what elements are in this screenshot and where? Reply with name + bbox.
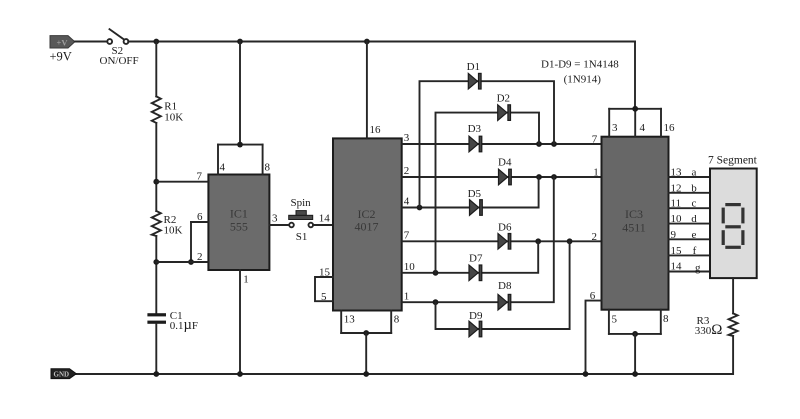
wire IC3 pin12 to b [669, 192, 711, 194]
wire row Q1 (pin2) to IC3 pin1 [402, 176, 602, 178]
display 7-segment [710, 169, 757, 279]
wire IC3 pin10 to d [669, 223, 711, 225]
svg-text:555: 555 [230, 220, 248, 234]
svg-text:5: 5 [321, 291, 327, 303]
svg-text:7 Segment: 7 Segment [708, 155, 758, 167]
svg-text:D3: D3 [468, 123, 482, 135]
svg-text:10: 10 [404, 261, 416, 273]
node IC3 bracket/ground [632, 371, 638, 377]
svg-text:0.1µF: 0.1µF [170, 317, 198, 333]
segment b [741, 208, 744, 224]
svg-text:D9: D9 [469, 310, 483, 322]
svg-text:d: d [691, 213, 697, 225]
svg-text:1: 1 [404, 290, 410, 302]
svg-text:D1: D1 [467, 61, 480, 73]
resistor R3 [729, 313, 738, 336]
wire IC2 pin15 bracket [315, 277, 333, 301]
wire pin6 drop [190, 222, 192, 262]
wire IC3 pin3 [608, 109, 610, 137]
svg-text:D2: D2 [497, 93, 510, 105]
node D2 anode on row10 [433, 270, 439, 276]
wire row Q0 (pin3) to IC3 pin7 [402, 143, 602, 145]
node IC2 bracket/ground [363, 371, 369, 377]
node D8 cathode on row2 [551, 174, 557, 180]
svg-text:15: 15 [319, 267, 331, 279]
svg-text:7: 7 [404, 230, 410, 242]
diode D1 [468, 73, 481, 89]
svg-text:4: 4 [640, 122, 646, 134]
svg-text:2: 2 [404, 165, 410, 177]
svg-text:1: 1 [593, 167, 599, 179]
svg-text:4: 4 [220, 162, 226, 174]
svg-text:3: 3 [272, 213, 278, 225]
svg-text:13: 13 [671, 167, 683, 179]
resistor R1 [152, 96, 161, 123]
wire left branch upper [155, 42, 157, 97]
wire IC1 pin4 [217, 145, 219, 175]
wire row Q3 (pin7) to IC3 pin2 [402, 240, 602, 242]
node pin2 junction [153, 259, 159, 265]
segment a [725, 203, 741, 206]
svg-text:f: f [693, 245, 697, 257]
svg-text:D5: D5 [468, 188, 482, 200]
wire row Q2 (pin4) [402, 177, 539, 208]
svg-text:10K: 10K [164, 111, 183, 123]
segment e [722, 230, 725, 245]
wire IC3 pin6 to ground [586, 301, 602, 374]
node D1 anode on row4 [417, 205, 423, 211]
wire IC3 pin9 to e [669, 238, 711, 240]
svg-text:2: 2 [592, 231, 598, 243]
wire IC1 pin3 [269, 224, 289, 226]
IC IC1 (555 timer) [208, 175, 269, 271]
svg-text:6: 6 [197, 211, 203, 223]
wire row Q4 (pin10) [402, 241, 539, 272]
diode D6 [498, 234, 511, 250]
node D7 cathode on row7 [535, 238, 541, 244]
node pin6/pin2 [188, 259, 194, 265]
+V supply terminal [50, 36, 75, 48]
wire +V to S2 [75, 41, 107, 43]
svg-text:16: 16 [370, 124, 382, 136]
svg-text:e: e [692, 229, 697, 241]
node IC1 bracket [237, 142, 243, 148]
svg-text:15: 15 [671, 245, 683, 257]
pushbutton S1 [289, 223, 294, 228]
switch S2 [107, 39, 112, 44]
svg-text:4511: 4511 [622, 220, 646, 234]
svg-text:c: c [692, 198, 697, 210]
svg-text:11: 11 [671, 198, 682, 210]
node IC3 bottom bracket [632, 331, 638, 337]
diode D9 [469, 321, 482, 337]
svg-text:D7: D7 [469, 253, 483, 265]
wire D2 branch [436, 113, 540, 273]
wire IC3 pin15 to f [669, 254, 711, 256]
svg-text:g: g [695, 262, 701, 274]
wire D1 branch [420, 81, 555, 207]
wire IC2 pin8 [390, 311, 392, 334]
node D9 cathode on row7 [567, 238, 573, 244]
node top rail / IC1 bracket [237, 39, 243, 45]
diode D8 [498, 294, 511, 310]
svg-text:10K: 10K [164, 224, 183, 236]
wire display to R3 [732, 278, 734, 313]
svg-text:9: 9 [671, 229, 677, 241]
wire IC2 pin16 to rail [366, 42, 368, 139]
segment g [725, 225, 741, 228]
wire IC3 pin5 [608, 310, 610, 334]
node IC3 pin6/ground [583, 371, 589, 377]
IC IC2 (4017 counter) [333, 138, 402, 310]
svg-text:D6: D6 [498, 221, 512, 233]
svg-text:Spin: Spin [291, 197, 312, 209]
wire IC2 bracket to ground [365, 333, 367, 374]
svg-text:IC1: IC1 [230, 207, 248, 221]
svg-text:12: 12 [671, 182, 682, 194]
svg-text:8: 8 [663, 313, 669, 325]
node top rail / R1 branch [153, 39, 159, 45]
svg-text:14: 14 [319, 213, 331, 225]
svg-text:D8: D8 [498, 280, 512, 292]
wire IC1 pin1 to ground [239, 270, 241, 374]
wire IC3 pin14 to g [669, 271, 711, 273]
segment d [725, 246, 741, 249]
svg-text:D4: D4 [498, 156, 512, 168]
diode D7 [469, 265, 482, 281]
svg-text:10: 10 [671, 213, 683, 225]
svg-text:8: 8 [394, 314, 400, 326]
capacitor C1 [147, 313, 166, 324]
svg-text:4: 4 [404, 196, 410, 208]
svg-text:330Ω: 330Ω [695, 322, 723, 338]
wire IC3 pin13 to a [669, 176, 711, 178]
diode D4 [499, 169, 512, 185]
wire row Q5 (pin1) [402, 177, 554, 302]
wire D9 branch [436, 241, 570, 329]
wire IC1 pin8 [262, 145, 264, 175]
wire R3 to ground rail [76, 336, 733, 374]
node C1/ground [153, 371, 159, 377]
wire IC1 bracket to rail [239, 42, 241, 145]
wire rail drop to IC3 bracket [634, 42, 636, 109]
svg-text:2: 2 [197, 251, 203, 263]
svg-text:13: 13 [344, 314, 356, 326]
wire C1 to ground rail [155, 324, 157, 374]
wire R2 to C1 [155, 236, 157, 313]
svg-text:GND: GND [54, 371, 70, 379]
resistor R2 [152, 211, 161, 236]
wire IC3 bracket to ground [634, 334, 636, 374]
node D1 cathode on row3 [551, 141, 557, 147]
wire IC3 pin8 [660, 310, 662, 334]
svg-text:+9V: +9V [50, 50, 72, 64]
wire IC3 pin11 to c [669, 207, 711, 209]
node pin7 junction [153, 179, 159, 185]
wire IC3 pin4 [634, 109, 636, 137]
svg-text:(1N914): (1N914) [564, 74, 602, 86]
wire IC3 bottom bracket [609, 333, 661, 335]
svg-text:7: 7 [197, 171, 203, 183]
svg-text:IC3: IC3 [625, 207, 643, 221]
IC IC3 (4511 decoder) [602, 137, 669, 310]
svg-text:8: 8 [265, 162, 271, 174]
wire S1 to IC2 pin14 [313, 224, 333, 226]
svg-text:3: 3 [612, 122, 618, 134]
node IC3 bracket [632, 106, 638, 112]
svg-text:D1-D9 = 1N4148: D1-D9 = 1N4148 [541, 59, 619, 71]
svg-text:a: a [692, 167, 697, 179]
node D5 cathode on row2 [536, 174, 542, 180]
node IC2 bracket [363, 330, 369, 336]
diode D3 [469, 136, 482, 152]
diode D2 [498, 105, 511, 121]
wire IC2 pin13 [340, 311, 342, 334]
wire IC2 bottom bracket [341, 332, 391, 334]
wire top rail [128, 41, 635, 43]
svg-text:b: b [691, 182, 697, 194]
svg-text:14: 14 [671, 261, 683, 273]
svg-text:3: 3 [404, 132, 410, 144]
segment c [741, 230, 744, 245]
svg-text:1: 1 [243, 274, 249, 286]
wire IC3 top bracket [609, 108, 661, 110]
svg-text:7: 7 [592, 134, 598, 146]
GND terminal [51, 369, 76, 379]
wire R1 to node7 [155, 123, 157, 211]
svg-text:4017: 4017 [355, 220, 379, 234]
node IC1 pin1/ground [237, 371, 243, 377]
segment f [722, 208, 725, 224]
wire IC3 pin16 [660, 109, 662, 137]
wire IC1 pin6 [191, 221, 208, 223]
svg-text:S1: S1 [296, 231, 308, 243]
svg-text:6: 6 [590, 290, 596, 302]
node D9 anode on row1 [433, 299, 439, 305]
svg-text:5: 5 [612, 314, 618, 326]
wire IC1 bracket top [218, 144, 263, 146]
diode D5 [470, 200, 483, 216]
node top rail / IC2 pin16 [364, 39, 370, 45]
svg-text:ON/OFF: ON/OFF [100, 55, 139, 67]
wire IC1 pin2 [156, 261, 208, 263]
node D2 cathode on row3 [536, 141, 542, 147]
svg-text:+V: +V [57, 38, 69, 48]
svg-text:16: 16 [664, 122, 676, 134]
wire IC1 pin7 [156, 181, 208, 183]
